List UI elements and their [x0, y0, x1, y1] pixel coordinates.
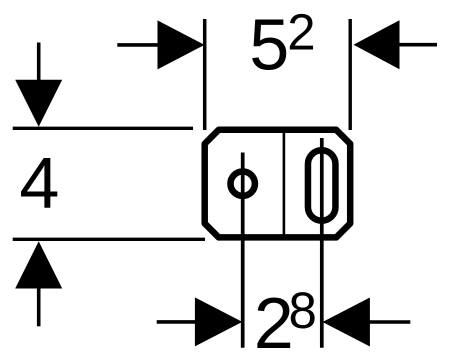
- top dimension left arrow tail: [117, 43, 165, 47]
- hole circle: [231, 172, 255, 196]
- hole centerline / extension line for 28: [241, 153, 245, 348]
- top dimension right arrow tail: [390, 43, 437, 47]
- slot (obround): [308, 150, 336, 221]
- left top extension line: [13, 127, 193, 130]
- svg-text:8: 8: [289, 282, 317, 339]
- bottom dimension left arrow tail: [157, 320, 200, 324]
- bottom dimension right arrowhead: [323, 298, 370, 347]
- top right extension line: [349, 19, 352, 130]
- top dimension left arrowhead: [158, 20, 205, 69]
- top left extension line: [203, 19, 207, 130]
- left dimension bottom arrowhead: [15, 241, 62, 288]
- divider line inside plate: [283, 131, 286, 236]
- slot centerline / extension line for 28: [320, 138, 324, 348]
- left dimension top arrowhead: [15, 80, 62, 127]
- left bottom extension line: [13, 238, 205, 241]
- bottom dimension right arrow tail: [365, 320, 410, 324]
- part outline (octagonal plate): [205, 130, 351, 238]
- svg-text:2: 2: [287, 3, 315, 60]
- left dimension top arrow tail: [37, 43, 41, 91]
- bottom dimension left arrowhead: [195, 297, 242, 346]
- svg-text:5: 5: [249, 6, 289, 86]
- left dimension bottom arrow tail: [37, 280, 41, 326]
- top dimension right arrowhead: [354, 20, 400, 69]
- svg-text:4: 4: [19, 144, 59, 224]
